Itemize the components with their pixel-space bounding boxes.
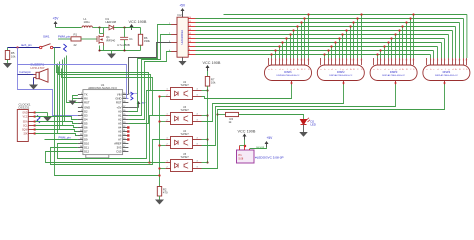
svg-text:TLP627: TLP627 (180, 84, 189, 87)
ground under R5 (7, 60, 9, 64)
capacitor C1 4.7u 250B (124, 28, 126, 38)
wire gate (81, 38, 97, 40)
svg-text:5: 5 (335, 59, 336, 61)
svg-text:10: 10 (301, 59, 303, 61)
svg-text:8: 8 (399, 59, 400, 61)
arduino pin right A6 (123, 135, 129, 137)
svg-text:c: c (380, 69, 381, 71)
ground power (111, 51, 113, 54)
terminal markers blue arduino (131, 92, 134, 96)
svg-text:14: 14 (189, 25, 191, 27)
ground under LED (303, 125, 305, 133)
svg-text:RST: RST (116, 101, 122, 105)
ic2 right pin wire bus 5 (188, 38, 195, 40)
arduino pin right +5V (123, 107, 129, 109)
svg-text:GND: GND (115, 97, 121, 101)
svg-text:DISPLAY-7SEG-4DIG-CC: DISPLAY-7SEG-4DIG-CC (435, 74, 459, 77)
svg-text:12: 12 (466, 59, 468, 61)
wires arduino A0-A2 to ic2 (128, 25, 171, 112)
svg-text:1: 1 (320, 59, 321, 61)
svg-text:SDA: SDA (23, 121, 28, 124)
ic2 right pin wire bus 6 (188, 42, 195, 44)
svg-text:3: 3 (197, 167, 198, 169)
svg-text:1: 1 (167, 89, 168, 91)
wire vert to D6 row (62, 60, 64, 126)
svg-text:a: a (320, 69, 321, 71)
svg-text:a: a (426, 69, 427, 71)
display DISP2 DISPLAY-7SEG-4DIG-CC (317, 65, 364, 81)
svg-text:b: b (377, 69, 378, 71)
resistor R7 10k (207, 71, 209, 77)
node (123, 49, 125, 51)
arduino pin left D8 (78, 135, 83, 137)
svg-text:VIN: VIN (117, 93, 122, 97)
svg-text:a: a (268, 69, 269, 71)
svg-text:15: 15 (189, 21, 191, 23)
svg-text:+5V: +5V (117, 106, 122, 110)
wire vert to D7 row (59, 62, 61, 130)
wire after switch (53, 47, 61, 49)
svg-text:6: 6 (286, 59, 287, 61)
svg-text:d: d (279, 69, 280, 71)
wire vert to RST row (67, 56, 78, 103)
svg-text:d: d (331, 69, 332, 71)
wire A3 long feed band1 (57, 65, 149, 124)
svg-text:VCC 190B: VCC 190B (238, 129, 256, 133)
node (148, 161, 150, 163)
wire clock SCL to arduino D6 (35, 126, 78, 128)
svg-text:1: 1 (167, 161, 168, 163)
display DISP3 DISPLAY-7SEG-4DIG-CC (370, 65, 417, 81)
svg-text:1: 1 (167, 138, 168, 140)
svg-text:A4: A4 (118, 126, 122, 130)
svg-text:powerin: powerin (130, 92, 138, 95)
wire (55, 26, 57, 29)
ground under IC2 (182, 57, 184, 61)
wire lavender branch to arduino (18, 65, 129, 99)
svg-text:2: 2 (324, 59, 325, 61)
svg-text:A3: A3 (118, 122, 122, 126)
svg-text:4: 4 (197, 161, 198, 163)
svg-text:d: d (346, 69, 347, 71)
svg-text:D5: D5 (84, 122, 88, 126)
ic2 left pin 2 (171, 34, 177, 36)
svg-text:GND: GND (84, 106, 90, 110)
svg-text:22: 22 (74, 43, 78, 47)
unconnected pins red arduino (127, 126, 129, 128)
svg-text:8: 8 (293, 59, 294, 61)
svg-text:3: 3 (275, 59, 276, 61)
wire opto cathodes common (159, 97, 161, 187)
clock pin VCC (28, 116, 35, 118)
svg-text:A7: A7 (118, 138, 122, 142)
display DISP1 DISPLAY-7SEG-4DIG-CC (265, 65, 312, 81)
svg-text:1: 1 (426, 59, 427, 61)
svg-text:+5V: +5V (267, 136, 274, 140)
arduino pin left D4 (78, 119, 83, 121)
ground under buzzer (33, 78, 35, 85)
svg-text:13: 13 (189, 29, 191, 31)
svg-text:D9: D9 (84, 138, 88, 142)
svg-text:9: 9 (455, 59, 456, 61)
wire clock VCC to arduino D4 (35, 117, 78, 120)
arduino pin left RX (78, 98, 83, 100)
svg-text:10k: 10k (211, 81, 216, 85)
node tach junction (16, 46, 18, 48)
wire band line3 (62, 69, 166, 116)
svg-text:DISPLAY-7SEG-4DIG-CC: DISPLAY-7SEG-4DIG-CC (382, 74, 406, 77)
svg-text:TLP627: TLP627 (180, 109, 189, 112)
svg-text:330k: 330k (144, 39, 151, 43)
arduino pin left D11 (78, 147, 83, 149)
svg-text:4: 4 (331, 59, 332, 61)
svg-text:+5V: +5V (53, 17, 60, 21)
svg-text:HYR-1707: HYR-1707 (31, 66, 45, 70)
arduino pin right A7 (123, 139, 129, 141)
arduino pin right D13 (123, 151, 129, 153)
wire arduino D9 PWM_pin (45, 139, 78, 141)
svg-text:D10: D10 (84, 142, 89, 146)
svg-text:b: b (324, 69, 325, 71)
wires opto collectors to pullup (202, 90, 208, 92)
svg-text:3: 3 (328, 59, 329, 61)
svg-text:1: 1 (373, 59, 374, 61)
svg-text:7: 7 (342, 59, 343, 61)
resistor R4 1k (216, 113, 218, 115)
svg-text:100u: 100u (84, 20, 91, 24)
wire arduino D10 loop (58, 91, 166, 159)
svg-text:12: 12 (413, 59, 415, 61)
arduino pin left D6 (78, 127, 83, 129)
arduino pin right A1 (123, 115, 129, 117)
svg-text:d: d (384, 69, 385, 71)
svg-text:TLP627: TLP627 (180, 133, 189, 136)
power +5V arduino (128, 107, 138, 109)
wire band line2 (59, 67, 166, 91)
svg-text:D2: D2 (84, 110, 88, 114)
clock pin SQW (28, 129, 35, 131)
svg-text:ULN2003A: ULN2003A (180, 30, 184, 45)
display DISP3 common pin (395, 81, 397, 85)
svg-text:2: 2 (430, 59, 431, 61)
svg-text:D7: D7 (84, 130, 88, 134)
svg-text:3V3: 3V3 (117, 146, 122, 150)
svg-text:DISP4: DISP4 (443, 70, 451, 74)
svg-text:8: 8 (189, 49, 190, 51)
svg-text:VCC 190B: VCC 190B (129, 20, 147, 24)
svg-text:R1: R1 (74, 32, 78, 36)
arduino pin left D9 (78, 139, 83, 141)
svg-text:4: 4 (437, 59, 438, 61)
svg-text:e: e (282, 69, 283, 71)
arduino pin right A3 (123, 123, 129, 125)
resistor R2 470 (157, 187, 161, 197)
svg-text:9: 9 (402, 59, 403, 61)
arduino pin left D2 (78, 111, 83, 113)
ground under R2 (159, 196, 161, 200)
svg-text:SW1: SW1 (43, 35, 50, 39)
svg-text:HER108: HER108 (106, 20, 117, 24)
svg-text:tach_pin: tach_pin (21, 43, 32, 47)
svg-text:DISPLAY-7SEG-4DIG-CC: DISPLAY-7SEG-4DIG-CC (276, 74, 300, 77)
arduino pin right A2 (123, 119, 129, 121)
wire common D2 (202, 85, 344, 122)
wire arduino D11 loop (51, 140, 166, 165)
svg-text:7: 7 (290, 59, 291, 61)
arduino pin right A4 (123, 127, 129, 129)
svg-text:11: 11 (463, 59, 465, 61)
svg-text:A5: A5 (118, 130, 122, 134)
wire vert to D5 row (64, 58, 66, 122)
svg-text:D12: D12 (84, 150, 89, 154)
svg-text:32K: 32K (23, 134, 28, 136)
svg-text:10: 10 (459, 59, 461, 61)
arduino pin right RST (123, 102, 129, 104)
ground clock (35, 112, 48, 114)
ic2 left pin 3 (171, 42, 177, 44)
svg-text:6: 6 (391, 59, 392, 61)
ic2 right pin wire bus 8 (188, 50, 195, 52)
wire dark ic2 pin3 to VIN (129, 43, 172, 95)
svg-text:TX: TX (84, 93, 88, 97)
svg-text:2: 2 (167, 144, 168, 146)
svg-text:VCC 190B: VCC 190B (203, 61, 221, 65)
svg-text:9: 9 (189, 45, 190, 47)
svg-text:PWM_pin: PWM_pin (59, 136, 72, 140)
svg-text:c: c (328, 69, 329, 71)
clock pin 32K (28, 133, 35, 135)
arduino pin left RST (78, 102, 83, 104)
svg-text:12: 12 (361, 59, 363, 61)
arduino pin right A5 (123, 131, 129, 133)
svg-text:7: 7 (448, 59, 449, 61)
svg-text:GND: GND (22, 113, 27, 115)
svg-text:SCL: SCL (23, 126, 28, 128)
svg-text:DISP2: DISP2 (337, 70, 345, 74)
svg-text:4.7u 250B: 4.7u 250B (117, 43, 130, 47)
svg-text:6: 6 (444, 59, 445, 61)
bus top line from +5V (224, 14, 467, 16)
svg-text:c: c (275, 69, 276, 71)
svg-text:4: 4 (197, 114, 198, 116)
arduino pin left D12 (78, 151, 83, 153)
svg-text:D13: D13 (116, 150, 121, 154)
svg-text:5: 5 (388, 59, 389, 61)
ic2 left pin 4 (171, 51, 177, 53)
svg-text:D6: D6 (84, 126, 88, 130)
svg-text:c: c (433, 69, 434, 71)
svg-text:5: 5 (282, 59, 283, 61)
svg-text:5: 5 (441, 59, 442, 61)
display DISP2 common pin (343, 81, 345, 85)
svg-text:d: d (399, 69, 400, 71)
svg-text:LED: LED (311, 123, 316, 127)
wire common D1 (202, 85, 292, 99)
wire (114, 27, 141, 29)
svg-text:2: 2 (167, 95, 168, 97)
svg-text:7: 7 (189, 53, 190, 55)
svg-text:buzzerpin: buzzerpin (20, 70, 32, 74)
svg-text:P1: P1 (239, 153, 243, 157)
svg-text:11: 11 (189, 37, 191, 39)
svg-text:TLP627: TLP627 (180, 156, 189, 159)
svg-text:8: 8 (346, 59, 347, 61)
svg-text:b: b (271, 69, 272, 71)
svg-text:A0: A0 (118, 110, 122, 114)
svg-text:d: d (293, 69, 294, 71)
svg-text:12: 12 (189, 33, 191, 35)
ic2 right pin wire bus 7 (188, 46, 195, 48)
ic2 right pin wire bus 9 (188, 54, 195, 56)
svg-text:6: 6 (339, 59, 340, 61)
svg-text:b: b (430, 69, 431, 71)
wire sw1 down to gnd line (55, 48, 160, 176)
wire (93, 27, 109, 29)
svg-text:3: 3 (433, 59, 434, 61)
clock pin SCL (28, 125, 35, 127)
ic2 left pin 1 (171, 24, 177, 26)
svg-text:4: 4 (384, 59, 385, 61)
wire common D3 (202, 85, 396, 146)
arduino pin left GND (78, 107, 83, 109)
arduino pin right AREF (123, 143, 129, 145)
svg-text:10: 10 (189, 41, 191, 43)
display 1 segment taps (271, 55, 273, 59)
ic2 right pin wire bus 3 (188, 30, 195, 32)
svg-text:5.08: 5.08 (239, 158, 244, 161)
svg-text:3: 3 (197, 95, 198, 97)
svg-text:2: 2 (271, 59, 272, 61)
svg-text:11: 11 (304, 59, 306, 61)
ground glyph left of arduino RX (73, 96, 78, 99)
svg-text:D8: D8 (84, 134, 88, 138)
node drain junction (98, 26, 100, 28)
arduino usb notch (86, 155, 109, 158)
wire tach_pin (8, 47, 40, 49)
svg-text:AREF: AREF (114, 142, 122, 146)
svg-text:+5V: +5V (179, 4, 186, 8)
connector P1 terminal block 5.08-3P (237, 150, 255, 163)
ic2 right pin wire bus 4 (188, 34, 195, 36)
wire common D4 (202, 85, 445, 169)
display DISP1 common pin (291, 81, 293, 85)
svg-text:10k: 10k (11, 54, 16, 58)
arduino pin left D5 (78, 123, 83, 125)
display 3 segment taps (377, 55, 379, 59)
display DISP4 DISPLAY-7SEG-4DIG-CC (423, 65, 470, 81)
wire riser U3 (150, 116, 166, 163)
wire buzzer navy (18, 74, 34, 76)
wire clock SDA to arduino D5 (35, 122, 78, 124)
svg-text:A6: A6 (118, 134, 122, 138)
arduino pin right 3V3 (123, 147, 129, 149)
svg-text:4: 4 (197, 138, 198, 140)
svg-text:RST: RST (84, 101, 90, 105)
svg-text:D3: D3 (84, 114, 88, 118)
wire source down (103, 46, 105, 51)
svg-text:11: 11 (410, 59, 412, 61)
arduino pin right VIN (123, 94, 129, 96)
svg-text:12: 12 (308, 59, 310, 61)
svg-text:1: 1 (167, 114, 168, 116)
svg-text:A2: A2 (118, 118, 122, 122)
svg-text:9: 9 (297, 59, 298, 61)
svg-text:1: 1 (268, 59, 269, 61)
svg-text:470: 470 (163, 191, 168, 195)
display 2 segment taps (324, 55, 326, 59)
svg-text:2: 2 (167, 167, 168, 169)
svg-text:3: 3 (380, 59, 381, 61)
led D2 LED (301, 120, 307, 125)
ic2 right pin wire bus 1 (188, 22, 195, 24)
ic2 right pin wire bus 2 (188, 26, 195, 28)
svg-text:DISPLAY-7SEG-4DIG-CC: DISPLAY-7SEG-4DIG-CC (329, 74, 353, 77)
svg-text:2: 2 (377, 59, 378, 61)
wire drain up (103, 28, 105, 34)
svg-text:VCC: VCC (23, 117, 28, 119)
svg-text:#LEDOGVC 5.08-3P: #LEDOGVC 5.08-3P (255, 156, 284, 160)
svg-text:d: d (452, 69, 453, 71)
svg-text:8: 8 (452, 59, 453, 61)
svg-text:9: 9 (350, 59, 351, 61)
resistor R5 10k (7, 48, 9, 51)
svg-text:4: 4 (197, 89, 198, 91)
svg-text:RX: RX (84, 97, 88, 101)
svg-text:IC2: IC2 (178, 13, 183, 17)
terminal marker blue clock (37, 115, 40, 123)
svg-text:PWM_pin: PWM_pin (58, 35, 71, 39)
svg-text:DISP3: DISP3 (390, 70, 398, 74)
svg-text:16: 16 (189, 17, 191, 19)
green bus lines to display 4 (196, 18, 464, 20)
svg-text:d: d (437, 69, 438, 71)
svg-text:D4: D4 (84, 118, 88, 122)
svg-text:10: 10 (353, 59, 355, 61)
svg-text:a: a (373, 69, 374, 71)
arduino pin left D10 (78, 143, 83, 145)
svg-text:7: 7 (395, 59, 396, 61)
wire vert to D8 row (57, 64, 59, 134)
svg-text:SQW: SQW (22, 130, 28, 132)
arduino pin right A0 (123, 111, 129, 113)
clock pin SDA (28, 121, 35, 123)
svg-text:2: 2 (167, 120, 168, 122)
svg-text:11: 11 (357, 59, 359, 61)
arduino pin left D3 (78, 115, 83, 117)
svg-text:IRF540: IRF540 (106, 38, 116, 42)
svg-text:D11: D11 (84, 146, 89, 150)
display DISP4 common pin (444, 81, 446, 85)
node (123, 26, 125, 28)
ic2 right pin wire bus 0 (188, 18, 195, 20)
clock pin GND (28, 112, 35, 114)
wire clock 32K to arduino D8 (35, 134, 78, 136)
terminal marker blue (64, 44, 67, 52)
wire to LED (239, 115, 304, 120)
resistor R6 330k (132, 27, 141, 29)
wire arduino D12 loop (46, 152, 166, 163)
svg-text:10: 10 (406, 59, 408, 61)
wire clock SQW to arduino D7 (35, 130, 78, 132)
svg-text:4: 4 (279, 59, 280, 61)
svg-text:3: 3 (197, 120, 198, 122)
transistor Q1 IRF540 (96, 36, 98, 42)
svg-text:C1: C1 (129, 37, 133, 41)
wire pullup common (207, 86, 209, 162)
svg-text:3: 3 (197, 144, 198, 146)
svg-text:A1: A1 (118, 114, 122, 118)
wire lavender to arduino D3 (18, 48, 78, 116)
